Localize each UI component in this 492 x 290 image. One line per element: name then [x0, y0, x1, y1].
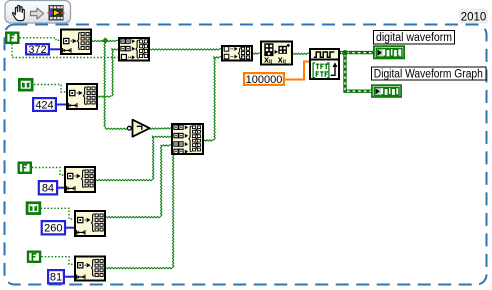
wire: B5 out up to B4 in2 (digital data): [96, 136, 171, 181]
label: Digital Waveform Graph: [372, 67, 487, 80]
B3: Build Digital Data: [67, 84, 97, 109]
toolbar forward arrow icon: [31, 8, 44, 19]
toolbar LabVIEW snippet (film strip) icon: [48, 5, 65, 21]
junction diamond on B1 output wire: [102, 37, 108, 43]
wire: 84 to B5 count (numeric U32): [58, 187, 64, 189]
NOT gate (digital invert): [127, 120, 149, 137]
B1: Build Digital Data: [61, 30, 91, 55]
wire: T1 to B3 initial-state (boolean): [34, 85, 66, 93]
wire: F2 to B5 initial-state (boolean): [32, 168, 64, 176]
wire: B1 out to B2 in1 (digital data): [92, 40, 118, 41]
B4: Append Digital Signals: [172, 124, 203, 154]
numeric constant N372 = 372: [26, 44, 49, 56]
numeric constant N424 = 424: [33, 98, 56, 111]
svg-text:424: 424: [35, 99, 53, 111]
boolean constant F3 (FALSE): [28, 252, 40, 262]
svg-text:2010: 2010: [461, 12, 487, 24]
svg-text:digital waveform: digital waveform: [376, 32, 452, 44]
B6: Build Digital Data: [75, 211, 105, 236]
toolbar hand (pan) tool icon: [13, 5, 25, 20]
B2: Append Digital Signals: [119, 38, 149, 61]
wire junction dot: [342, 50, 347, 55]
svg-text:84: 84: [42, 183, 54, 195]
wire: B4 out up to B8 in2 (digital data): [204, 57, 221, 141]
wire: B8 out to B9 (digital data): [253, 53, 260, 54]
numeric constant N81 = 81: [48, 270, 64, 283]
wire: B9 out to B10 (digital data): [293, 53, 309, 54]
wire: F1 branch to B2 tail (boolean): [12, 44, 118, 58]
boolean constant F2 (FALSE): [19, 163, 31, 173]
B9: digital conversion (Xij): [261, 42, 292, 66]
wire: 424 to B3 count (numeric U32): [57, 104, 66, 106]
numeric constant N84 = 84: [39, 181, 57, 194]
wire: B3 out up to B2 in2 (digital data): [98, 49, 118, 97]
indicator terminal: digital waveform: [374, 46, 404, 58]
wire: NOT out to B4 in1 (digital data): [150, 128, 172, 130]
wire: branch down to graph indicator (digital waveform): [345, 53, 371, 92]
B10: Build Digital Waveform: [310, 49, 339, 79]
B7: Build Digital Data: [75, 257, 105, 281]
numeric constant N100000 = 100000: [244, 73, 284, 86]
svg-text:260: 260: [44, 223, 62, 235]
wire: B10 out to digital-waveform indicator (digital waveform): [340, 51, 373, 54]
wire: T2 to B6 initial-state (boolean): [41, 208, 74, 219]
svg-text:100000: 100000: [246, 74, 283, 86]
wire: branch from junction down to NOT input (digital data): [104, 43, 127, 129]
svg-text:81: 81: [50, 272, 62, 284]
boolean constant F1 (FALSE): [6, 33, 18, 43]
year tag 2010: [459, 9, 488, 24]
wire: 372 to B1 count (numeric U32): [50, 48, 60, 50]
wire: 260 to B6 count (numeric U32): [66, 227, 74, 229]
boolean constant T2 (TRUE): [27, 203, 40, 214]
wire: B2 out to B8 in1 (digital data): [150, 49, 221, 50]
B5: Build Digital Data: [65, 167, 95, 192]
wire: B6 out up to B4 in3 (digital data): [106, 145, 171, 218]
label: digital waveform: [374, 31, 455, 45]
wire: 100000 to B10 (orange DBL): [285, 62, 309, 80]
wire: B7 out up to B4 in4 (digital data): [106, 154, 174, 269]
indicator terminal: Digital Waveform Graph: [372, 85, 401, 97]
boolean constant T1 (TRUE): [19, 79, 32, 90]
svg-text:372: 372: [28, 44, 46, 56]
wire: F1 to B1 initial-state (boolean): [20, 38, 61, 41]
wire: F3 to B7 initial-state (boolean): [41, 257, 74, 265]
B8: Append Digital Samples: [222, 46, 252, 61]
wire: 81 to B7 count (numeric U32): [65, 276, 74, 278]
svg-text:Digital Waveform Graph: Digital Waveform Graph: [374, 68, 483, 80]
numeric constant N260 = 260: [42, 221, 65, 234]
